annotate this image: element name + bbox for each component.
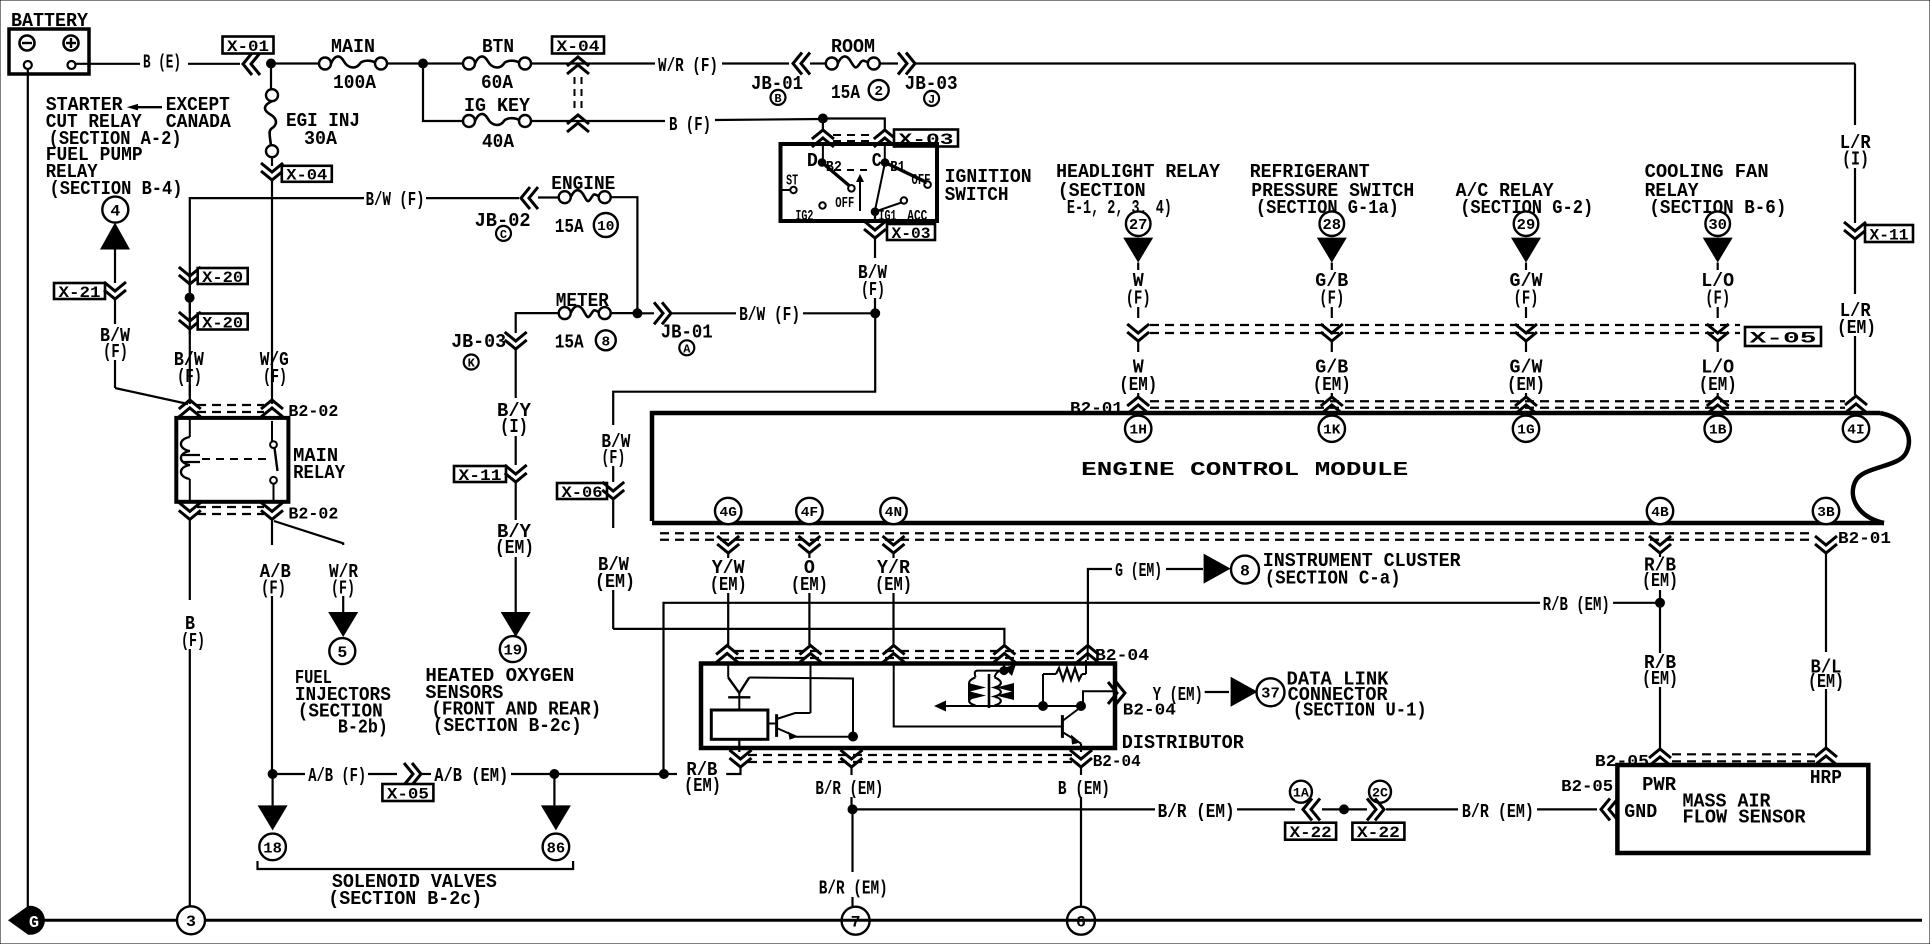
wire R/B(EM) from 4B down [1659, 553, 1661, 557]
section target 30 [1705, 211, 1730, 236]
svg-text:(EM): (EM) [1642, 668, 1678, 690]
svg-text:(F): (F) [1514, 288, 1539, 310]
arrow to data link connector [1231, 677, 1258, 707]
svg-text:C: C [500, 228, 507, 242]
svg-text:30A: 30A [304, 128, 338, 150]
svg-text:1A: 1A [1293, 785, 1309, 800]
svg-text:(F): (F) [861, 279, 885, 301]
wire B/W(F) from ignition down [874, 238, 876, 258]
node A/B-R/B junction [659, 770, 668, 779]
wire B/W(F) from corner to ENGINE fuse [190, 198, 364, 404]
wire B(EM) from distributor down to 6 [1080, 767, 1082, 775]
node X-20 junction [189, 284, 191, 293]
svg-text:15A: 15A [555, 332, 584, 354]
wire diagonal into B2-02 bus [115, 388, 188, 404]
section target 5 fuel injectors [329, 638, 355, 664]
wire IG KEY fuse to X-04 [531, 120, 578, 122]
wire B(F) from X-04 to ignition switch [578, 120, 665, 122]
svg-text:(F): (F) [181, 630, 205, 652]
wire top right to L/R corner [915, 62, 1855, 64]
svg-text:(EM): (EM) [1642, 570, 1678, 592]
wire Y/R(EM) from 4N [892, 553, 894, 558]
svg-text:28: 28 [1323, 217, 1342, 234]
svg-text:(EM): (EM) [684, 775, 721, 797]
wire L/R(I) down right side [1854, 64, 1856, 126]
connector X-11 left [454, 466, 506, 482]
node R/B junction [1656, 598, 1665, 607]
connector entry 4I to B2-01 bus [1845, 396, 1867, 413]
svg-text:7: 7 [851, 913, 861, 931]
bus B2-02 bottom [179, 502, 201, 519]
svg-text:SWITCH: SWITCH [945, 184, 1009, 206]
svg-text:27: 27 [1129, 217, 1148, 234]
pin 4G [715, 498, 741, 524]
svg-text:G (EM): G (EM) [1115, 560, 1162, 582]
node ignition feed [818, 114, 827, 123]
section target 18 [259, 834, 286, 861]
arrow to instrument cluster [1204, 554, 1231, 584]
svg-text:(F): (F) [103, 341, 128, 363]
connector X-22 2C [1369, 781, 1391, 803]
connector X-05 entry [1127, 324, 1149, 341]
wire coil pin to A/B junction [726, 767, 740, 774]
svg-text:X-03: X-03 [899, 131, 954, 149]
svg-text:(EM): (EM) [1119, 374, 1157, 396]
connector X-20 upper [179, 267, 201, 284]
svg-text:40A: 40A [482, 131, 515, 153]
svg-text:MAIN: MAIN [331, 36, 375, 58]
svg-text:W/R (F): W/R (F) [658, 55, 718, 77]
svg-text:(F): (F) [1705, 288, 1730, 310]
svg-text:B (F): B (F) [669, 114, 711, 136]
ignition switch box [781, 144, 938, 221]
svg-text:ACC: ACC [907, 208, 927, 225]
section target 4 starter cut relay [102, 197, 128, 223]
svg-text:4: 4 [110, 202, 120, 220]
wire W(F) [1137, 263, 1139, 270]
connector entry to B2-01 bus [1321, 397, 1343, 414]
svg-text:ENGINE CONTROL MODULE: ENGINE CONTROL MODULE [1081, 459, 1408, 481]
connector entry to B2-01 bus [1127, 397, 1149, 414]
wire B(F) down to ground bus [189, 519, 191, 600]
zener bypass wire [749, 678, 853, 737]
wire X-01 junction down to EGI fuse [270, 64, 272, 90]
wire W/R(F) to ROOM fuse [578, 62, 655, 64]
connector X-11 right [1844, 222, 1866, 239]
ignition coil transformer [1003, 665, 1005, 671]
svg-text:6: 6 [1076, 913, 1086, 931]
svg-text:(F): (F) [601, 447, 625, 469]
svg-text:X-04: X-04 [557, 38, 600, 56]
wire B/W(F) jog to left column [613, 313, 875, 425]
node Q1 emitter junction [849, 732, 858, 741]
svg-text:4F: 4F [801, 505, 818, 521]
svg-text:GND: GND [1624, 801, 1657, 823]
svg-text:E-1, 2, 3, 4): E-1, 2, 3, 4) [1067, 197, 1172, 219]
wire ENGINE fuse to corner down [611, 197, 638, 313]
svg-text:29: 29 [1517, 217, 1536, 234]
arrow down from 27 [1123, 238, 1153, 263]
wire B/L(EM) from 3B down to MAF HRP [1825, 553, 1827, 556]
wire coil output down [738, 739, 740, 752]
section target 19 heated oxygen sensors [500, 636, 526, 662]
svg-text:(F): (F) [263, 366, 287, 388]
svg-text:1B: 1B [1709, 423, 1727, 439]
svg-text:1K: 1K [1323, 423, 1341, 439]
svg-text:B/R (EM): B/R (EM) [815, 778, 883, 800]
svg-text:(EM): (EM) [1507, 374, 1545, 396]
connector X-21 [54, 283, 105, 299]
svg-text:(EM): (EM) [1699, 374, 1737, 396]
wire B/R(EM) down to 7 [851, 809, 853, 872]
svg-text:(EM): (EM) [710, 574, 747, 596]
svg-text:(SECTION B-2c): (SECTION B-2c) [328, 888, 482, 910]
node battery feed junction [267, 59, 276, 68]
svg-text:30: 30 [1708, 217, 1727, 234]
arrow down to 86 [541, 805, 571, 830]
wire G/W(F) [1525, 263, 1527, 270]
main relay box [176, 418, 288, 502]
svg-text:DISTRIBUTOR: DISTRIBUTOR [1122, 732, 1245, 754]
wire B/W(EM) down [612, 499, 614, 528]
connector JB-03 J [880, 62, 898, 64]
wire down to 86 [553, 774, 555, 805]
svg-text:OFF: OFF [835, 195, 854, 212]
svg-text:RELAY: RELAY [293, 462, 346, 484]
wire B(E) battery to X-01 [76, 63, 141, 65]
svg-text:X-22: X-22 [1357, 824, 1400, 842]
svg-text:B (E): B (E) [143, 52, 181, 74]
wire down from arrow to X-21 [114, 249, 116, 283]
igniter coil box [711, 710, 768, 739]
wire Y/R into Q2 base [894, 665, 1053, 727]
wire R/B(EM) down to MAF PWR [1659, 603, 1661, 653]
node B/W junction [871, 309, 880, 318]
svg-text:X-20: X-20 [202, 314, 243, 332]
section target 86 [543, 834, 570, 861]
svg-text:X-05: X-05 [1750, 329, 1817, 347]
svg-text:(SECTION C-a): (SECTION C-a) [1265, 567, 1401, 589]
secondary wire with spark arrow [941, 705, 1043, 707]
connector X-22 1A [1290, 781, 1312, 803]
ground bus wire [28, 919, 1922, 922]
pin 4B [1647, 498, 1673, 524]
svg-text:B2-01: B2-01 [1838, 530, 1891, 549]
transistor Q1 [768, 723, 777, 725]
section target 8 instrument cluster [1231, 556, 1259, 584]
connector X-04 in-line [552, 37, 604, 54]
bus X-05 dashed [1150, 324, 1740, 326]
wire G(EM) column into resistor [1087, 645, 1089, 660]
wire A/B(F) to X-05 [273, 773, 305, 775]
fuse EGI INJ 30A [266, 89, 278, 101]
svg-text:B2-04: B2-04 [1093, 753, 1141, 772]
svg-text:B2-04: B2-04 [1123, 702, 1176, 721]
svg-text:3B: 3B [1817, 505, 1835, 521]
svg-text:B-2b): B-2b) [338, 717, 388, 739]
svg-text:3: 3 [186, 913, 196, 931]
wire B/W(F) to main relay [189, 329, 191, 334]
arrow down to 18 [258, 805, 288, 830]
connector JB-03 K [505, 332, 527, 349]
svg-text:2C: 2C [1372, 785, 1388, 800]
section target 3 [177, 906, 205, 934]
svg-text:(EM): (EM) [1313, 374, 1351, 396]
arrow down to 19 [501, 612, 531, 637]
svg-text:100A: 100A [333, 72, 377, 94]
svg-text:4N: 4N [885, 505, 902, 521]
svg-text:X-05: X-05 [387, 785, 429, 803]
arrow down to 5 [328, 612, 358, 637]
svg-text:(F): (F) [1126, 288, 1151, 310]
svg-text:IG2: IG2 [795, 208, 813, 225]
svg-text:(F): (F) [177, 366, 202, 388]
svg-text:B2-02: B2-02 [288, 506, 338, 525]
section target 6 [1067, 907, 1095, 935]
svg-text:86: 86 [547, 840, 566, 857]
wire battery negative down to ground [27, 69, 29, 917]
wire to BTN fuse [423, 62, 463, 64]
svg-text:K: K [468, 357, 476, 371]
node resistor bottom junction [1039, 702, 1048, 711]
wire B/W(EM) to distributor [613, 629, 1004, 645]
pin 3B [1813, 498, 1839, 524]
svg-text:B/W (F): B/W (F) [366, 189, 425, 211]
wire G(EM) to instrument cluster [1088, 569, 1112, 645]
bus B2-04 top dashed [716, 646, 738, 663]
svg-text:8: 8 [1240, 562, 1250, 580]
pin 1H [1125, 416, 1151, 442]
mass air flow sensor box [1617, 765, 1868, 853]
section target 37 data link connector [1257, 678, 1285, 706]
connector JB-02 C [521, 187, 538, 209]
svg-text:(F): (F) [261, 577, 286, 599]
svg-text:4G: 4G [720, 505, 737, 521]
wire A/B(F) down [271, 519, 273, 545]
pin 1G [1513, 416, 1539, 442]
svg-text:B/R (EM): B/R (EM) [1462, 801, 1534, 823]
wire G/W(EM) [1525, 341, 1527, 352]
wire L/R(EM) down [1854, 239, 1856, 294]
section target 7 [842, 907, 870, 935]
bus B2-02 top [179, 400, 201, 417]
svg-text:B: B [774, 92, 781, 106]
wire B/Y(I) down [515, 349, 517, 398]
arrow except-canada [127, 104, 138, 111]
svg-text:37: 37 [1261, 686, 1280, 703]
main relay coil [189, 419, 191, 437]
svg-text:X-04: X-04 [286, 167, 327, 185]
bus B2-04 bottom dashed [730, 750, 752, 767]
svg-text:A: A [683, 342, 691, 356]
wire B/R(EM) from distributor down [850, 767, 852, 775]
svg-text:(I): (I) [1842, 149, 1869, 171]
svg-text:(SECTION B-2c): (SECTION B-2c) [433, 715, 582, 737]
wire W/R(F) branch to injectors [274, 521, 343, 545]
distributor box [701, 664, 1115, 749]
wire W/G down to B2-02 bus [271, 180, 273, 404]
wire B/Y(EM) down to 19 [515, 482, 517, 520]
svg-text:1H: 1H [1130, 423, 1147, 439]
wire A/B(EM) [421, 773, 431, 775]
pin 1K [1319, 416, 1345, 442]
svg-text:R/B (EM): R/B (EM) [1543, 594, 1610, 616]
connector X-03 bottom [874, 212, 876, 222]
svg-text:BTN: BTN [482, 36, 514, 58]
svg-text:X-11: X-11 [1870, 226, 1909, 244]
node X-22 junction [1322, 808, 1344, 810]
svg-text:(EM): (EM) [1837, 317, 1876, 339]
svg-text:IG1: IG1 [879, 208, 897, 225]
svg-text:10: 10 [597, 219, 614, 235]
svg-text:18: 18 [263, 840, 282, 857]
main relay switch [202, 458, 266, 460]
bus B2-01 bottom dashed [660, 532, 1815, 534]
node solenoid branch [550, 770, 559, 779]
connector X-06 [557, 483, 607, 499]
section target 28 [1320, 211, 1345, 236]
svg-text:X-03: X-03 [892, 225, 931, 243]
pin 1B [1705, 416, 1731, 442]
svg-text:OFF: OFF [912, 172, 931, 189]
wire L/O(EM) [1717, 341, 1719, 352]
connector entry to B2-01 bus [1515, 397, 1537, 414]
svg-text:G: G [29, 914, 39, 933]
svg-text:B/R (EM): B/R (EM) [1158, 801, 1235, 823]
svg-text:X-21: X-21 [59, 284, 101, 302]
connector X-05 inline [404, 763, 421, 785]
svg-text:X-20: X-20 [202, 269, 243, 287]
connector JB-01 A [637, 312, 654, 314]
arrow down from 28 [1317, 238, 1347, 263]
svg-text:B2-05: B2-05 [1595, 753, 1649, 772]
svg-text:15A: 15A [555, 216, 584, 238]
svg-text:B2-01: B2-01 [1070, 400, 1123, 419]
svg-text:X-01: X-01 [227, 38, 269, 56]
svg-text:B/W (F): B/W (F) [739, 304, 800, 326]
wire METER fuse left corner down [516, 313, 559, 333]
svg-text:A/B (F): A/B (F) [308, 765, 366, 787]
svg-text:X-06: X-06 [562, 484, 603, 502]
svg-text:4I: 4I [1847, 423, 1864, 439]
wire to MAIN fuse [271, 62, 319, 64]
svg-text:(F): (F) [1319, 288, 1344, 310]
connector X-05 entry [1515, 324, 1537, 341]
wire R/B(EM) horizontal [664, 603, 1541, 774]
svg-text:PWR: PWR [1642, 774, 1677, 796]
wire B/W(F) down-left column [114, 299, 116, 324]
wire A/B(F) down to 18 [272, 774, 274, 805]
wire G/B(F) [1331, 263, 1333, 270]
arrow down from 29 [1511, 238, 1541, 263]
svg-text:B2-02: B2-02 [288, 403, 338, 422]
svg-text:C: C [872, 150, 882, 172]
wire G/B(EM) [1331, 341, 1333, 352]
ground symbol G [8, 906, 45, 935]
svg-text:B/R (EM): B/R (EM) [819, 877, 888, 899]
pin 4F [796, 498, 822, 524]
svg-text:X-22: X-22 [1290, 824, 1332, 842]
svg-text:4B: 4B [1651, 505, 1669, 521]
node METER junction [611, 312, 638, 314]
connector X-01 [223, 37, 274, 54]
branch wire down to IG KEY fuse [423, 64, 463, 122]
wire O(EM) from 4F [808, 553, 810, 558]
wire B/W(F) to ignition junction [671, 312, 736, 314]
wire W(EM) [1137, 341, 1139, 352]
section target 29 [1514, 211, 1539, 236]
pin 4I [1843, 416, 1869, 442]
connector JB-01 B [793, 53, 810, 75]
svg-text:(SECTION U-1): (SECTION U-1) [1293, 700, 1427, 722]
svg-text:HRP: HRP [1810, 767, 1842, 789]
wire L/O(F) [1717, 263, 1719, 270]
svg-text:19: 19 [504, 643, 523, 660]
wire MAIN fuse to junction [387, 62, 423, 64]
svg-text:IG KEY: IG KEY [464, 95, 531, 117]
wire Q2 emitter down (B EM) [1080, 744, 1082, 753]
svg-text:60A: 60A [481, 72, 514, 94]
svg-text:(EM): (EM) [595, 571, 635, 593]
connector X-20 lower [179, 312, 201, 329]
connector X-04 vertical [271, 158, 273, 166]
node B/R junction [848, 805, 857, 814]
transistor Q2 [1077, 702, 1086, 711]
svg-text:D: D [807, 150, 818, 172]
svg-text:5: 5 [337, 644, 347, 662]
connector X-05 entry [1321, 324, 1343, 341]
resistor [1043, 673, 1056, 675]
svg-text:B2-05: B2-05 [1561, 778, 1613, 797]
svg-text:2: 2 [874, 84, 883, 100]
svg-text:B (EM): B (EM) [1058, 778, 1110, 800]
connector X-03 top [822, 119, 824, 131]
svg-text:JB-03: JB-03 [451, 331, 506, 353]
svg-text:15A: 15A [831, 82, 860, 104]
wire BTN fuse to X-04 [531, 62, 578, 64]
node BTN/IG KEY branch [419, 59, 428, 68]
wire B/R(EM) to GND [1386, 808, 1458, 810]
svg-text:(EM): (EM) [495, 537, 534, 559]
section target 27 [1126, 211, 1151, 236]
svg-text:X-11: X-11 [459, 467, 502, 485]
igniter zener diode [727, 665, 729, 678]
pin 4N [880, 498, 906, 524]
node A/B junction left [268, 770, 277, 779]
connector entry to B2-01 bus [1707, 397, 1729, 414]
svg-text:(I): (I) [500, 416, 528, 438]
svg-text:J: J [928, 93, 935, 107]
wire Y/W(EM) from 4G [727, 553, 729, 558]
arrow down from 30 [1703, 238, 1733, 263]
brace solenoid valves [258, 861, 574, 869]
svg-text:(EM): (EM) [791, 574, 828, 596]
svg-text:1G: 1G [1517, 423, 1534, 439]
arrow up to 4 [100, 223, 130, 250]
svg-text:FLOW SENSOR: FLOW SENSOR [1683, 807, 1807, 829]
wire B/R(EM) to MAF [853, 808, 1156, 810]
connector X-05 entry [1707, 324, 1729, 341]
svg-text:A/B (EM): A/B (EM) [434, 765, 508, 787]
svg-text:8: 8 [601, 334, 610, 350]
engine control module box [652, 413, 1880, 521]
svg-text:ROOM: ROOM [831, 36, 875, 58]
ignition switch internals [822, 146, 824, 163]
svg-text:(EM): (EM) [875, 574, 912, 596]
wire Y(EM) output [1081, 691, 1113, 706]
